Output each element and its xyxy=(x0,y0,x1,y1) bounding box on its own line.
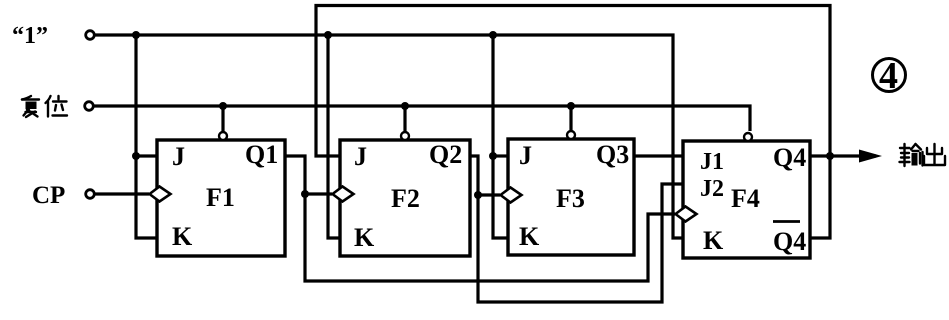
svg-text:Q1: Q1 xyxy=(245,140,278,169)
svg-text:Q4: Q4 xyxy=(773,143,806,172)
svg-text:J1: J1 xyxy=(700,149,724,175)
svg-text:4: 4 xyxy=(879,55,898,97)
svg-text:F2: F2 xyxy=(391,184,420,213)
svg-text:J: J xyxy=(172,142,185,171)
svg-text:J: J xyxy=(519,141,532,170)
svg-text:Q4: Q4 xyxy=(773,227,806,256)
svg-text:F3: F3 xyxy=(556,184,585,213)
svg-text:J: J xyxy=(354,142,367,171)
svg-text:K: K xyxy=(519,222,540,251)
svg-text:“1”: “1” xyxy=(12,23,48,49)
svg-text:CP: CP xyxy=(32,182,65,209)
svg-text:J2: J2 xyxy=(700,176,724,202)
svg-text:K: K xyxy=(703,226,724,255)
svg-text:F4: F4 xyxy=(731,184,760,213)
svg-text:K: K xyxy=(172,222,193,251)
svg-text:Q3: Q3 xyxy=(596,140,629,169)
svg-text:K: K xyxy=(354,223,375,252)
svg-text:Q2: Q2 xyxy=(429,140,462,169)
svg-text:F1: F1 xyxy=(206,183,235,212)
